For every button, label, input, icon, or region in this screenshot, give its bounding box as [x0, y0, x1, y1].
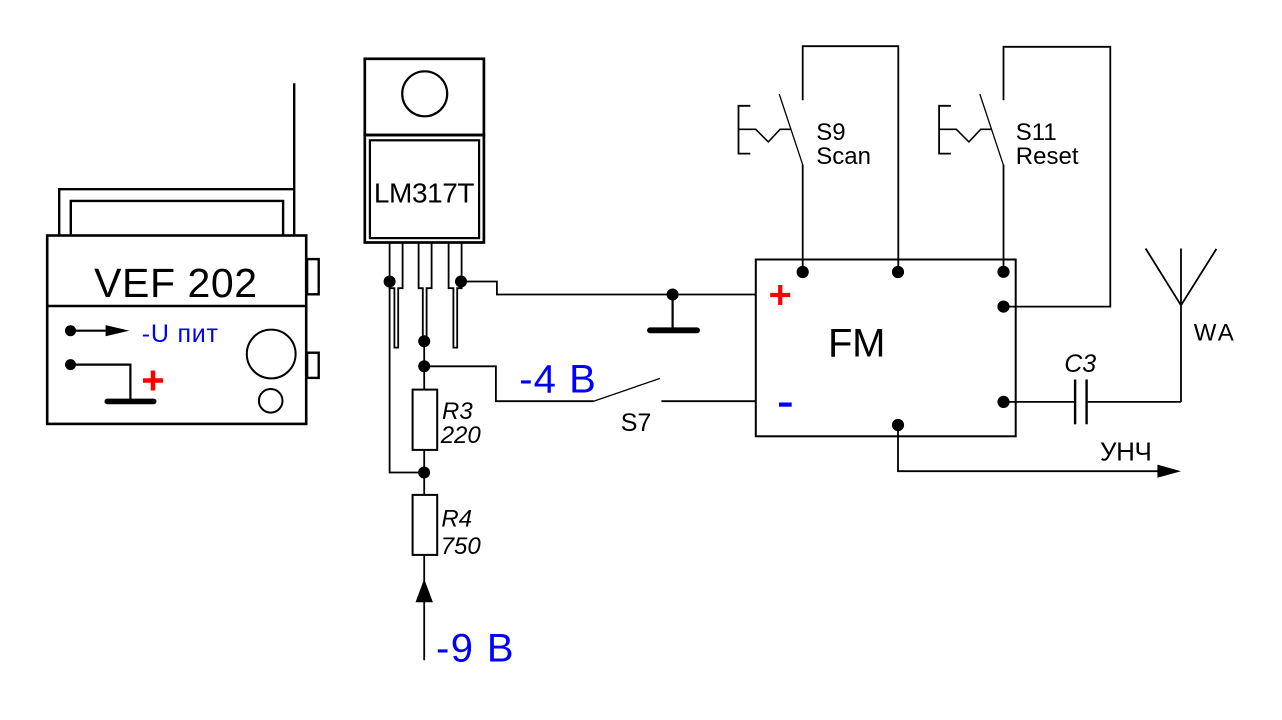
- S11 bottom wire: [1003, 164, 1005, 271]
- svg-text:R4: R4: [441, 506, 472, 533]
- node pin2 dot: [418, 335, 430, 347]
- svg-text:FM: FM: [828, 322, 886, 366]
- handle outer: [59, 189, 294, 235]
- resistor R4: [413, 495, 438, 555]
- wire pin2 down: [423, 341, 425, 366]
- radio plus sign: [143, 371, 163, 391]
- wire to radio ground: [71, 365, 131, 399]
- radio side tab upper: [307, 259, 319, 294]
- svg-text:750: 750: [441, 533, 482, 560]
- S11 pushbutton bracket: [939, 106, 951, 154]
- wire R4 to -9V: [423, 555, 425, 660]
- arrow -9V up: [416, 579, 433, 602]
- wire S7 to FM minus: [661, 400, 755, 402]
- radio terminal dot upper: [65, 325, 76, 336]
- ground symbol mid: [671, 295, 673, 328]
- handle inner: [71, 201, 283, 236]
- S11 actuator zigzag: [939, 129, 991, 142]
- S11 top wire loop: [1004, 47, 1111, 307]
- FM pin dots right: [997, 301, 1009, 313]
- svg-text:-U пит: -U пит: [142, 320, 219, 348]
- S9 blade: [779, 94, 802, 164]
- svg-text:WA: WA: [1194, 320, 1234, 347]
- svg-text:C3: C3: [1064, 350, 1096, 378]
- node R3 R4 junction dot: [418, 467, 430, 479]
- radio side tab lower: [307, 353, 319, 378]
- LM317 body outer: [365, 135, 484, 243]
- node adj dot: [418, 360, 430, 372]
- capacitor C3: [1074, 380, 1076, 425]
- wire pin1 down and to junction: [390, 282, 425, 473]
- wire FM to C3: [1004, 401, 1075, 403]
- svg-text:-9 В: -9 В: [436, 627, 514, 671]
- LM317 pin 2: [419, 243, 432, 342]
- LM317 pin 3: [449, 243, 462, 348]
- node pin1 dot: [384, 276, 396, 288]
- radio ground bar: [107, 399, 153, 405]
- resistor R3: [413, 390, 438, 450]
- svg-text:LM317T: LM317T: [374, 177, 475, 208]
- wire C3 to antenna: [1088, 401, 1181, 403]
- svg-text:R3: R3: [442, 398, 473, 425]
- wire УНЧ output: [898, 425, 1158, 471]
- svg-text:Scan: Scan: [816, 143, 871, 170]
- wire adj down to R3: [423, 366, 425, 389]
- FM pin dot bottom: [892, 419, 904, 431]
- LM317 mounting hole: [402, 71, 447, 116]
- antenna of radio: [293, 83, 295, 235]
- radio tuning knob: [247, 330, 296, 379]
- LM317 body inner: [370, 140, 479, 238]
- radio terminal dot lower: [65, 359, 76, 370]
- svg-text:220: 220: [440, 422, 482, 449]
- arrow -U пит: [71, 330, 109, 332]
- LM317 tab: [365, 59, 484, 135]
- wire R3 to junction: [423, 450, 425, 495]
- switch S7 blade: [594, 378, 660, 401]
- FM box: [756, 260, 1016, 437]
- FM minus sign: [779, 403, 792, 407]
- svg-text:VEF 202: VEF 202: [94, 260, 257, 306]
- S9 actuator zigzag: [739, 129, 791, 142]
- node ground junction dot: [667, 289, 679, 301]
- S9 pushbutton bracket: [739, 106, 751, 154]
- svg-text:-4 В: -4 В: [519, 357, 596, 401]
- FM plus sign: [770, 285, 790, 305]
- arrow УНЧ: [1157, 465, 1181, 478]
- S11 blade: [980, 94, 1003, 164]
- svg-text:S7: S7: [621, 409, 652, 437]
- radio small knob: [259, 389, 283, 413]
- wire pin3 to FM plus: [461, 282, 756, 295]
- LM317 pin 1: [390, 243, 403, 348]
- S9 top wire loop: [803, 46, 899, 272]
- svg-text:Reset: Reset: [1016, 143, 1079, 170]
- node pin3 dot: [455, 276, 467, 288]
- radio panel divider: [47, 305, 306, 308]
- wire adj to S7: [424, 366, 593, 401]
- S9 bottom wire: [802, 164, 804, 272]
- radio body: [47, 236, 306, 424]
- FM pin dots top: [797, 266, 809, 278]
- svg-text:УНЧ: УНЧ: [1100, 436, 1152, 466]
- antenna WA: [1146, 249, 1217, 402]
